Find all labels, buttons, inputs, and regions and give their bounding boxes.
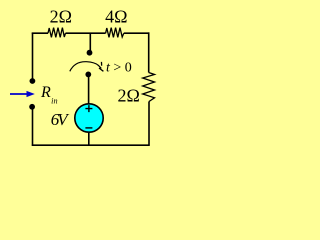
node dot: switch lower contact <box>85 72 91 78</box>
resistor R3 2ohm (right vertical) <box>143 73 155 102</box>
wire: middle stub from top <box>89 34 91 51</box>
Rin input arrow (blue) <box>10 93 28 95</box>
wire: top-right segment <box>124 32 150 34</box>
wire: top-left segment <box>32 32 48 34</box>
switch closing arc <box>70 62 99 72</box>
wire: top-middle segment <box>66 32 106 34</box>
wire: right upper <box>148 32 150 72</box>
svg-text:4Ω: 4Ω <box>105 6 127 26</box>
wire: left lower <box>32 109 34 146</box>
wire: source bottom lead <box>88 133 90 145</box>
svg-text:t > 0: t > 0 <box>106 60 132 75</box>
voltage source V1 6V circle <box>75 104 103 132</box>
node dot: switch upper contact <box>87 50 93 56</box>
wire: left upper <box>32 33 34 79</box>
svg-text:2Ω: 2Ω <box>118 86 140 106</box>
Rin arrowhead <box>27 91 35 97</box>
minus sign of source <box>85 127 92 129</box>
wire: right lower <box>148 102 150 146</box>
wire: middle below switch <box>88 77 90 104</box>
plus sign of source <box>85 105 92 112</box>
wire: bottom <box>32 144 150 146</box>
node dot: left lower terminal <box>29 104 35 110</box>
resistor R2 4ohm (top-right) <box>106 28 124 38</box>
switch arc arrowhead <box>98 65 101 68</box>
resistor R1 2ohm (top-left) <box>48 28 66 38</box>
node dot: left upper terminal <box>30 78 36 84</box>
svg-text:2Ω: 2Ω <box>50 6 72 26</box>
